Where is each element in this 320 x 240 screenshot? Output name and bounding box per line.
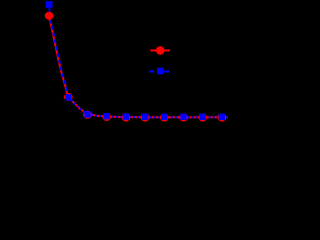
legend red sample line <box>150 50 170 52</box>
red circle marker point 7 <box>160 114 169 122</box>
blue square marker point 3 <box>84 111 90 117</box>
blue series dashed line flat part <box>71 100 228 117</box>
legend blue sample dash left <box>149 71 155 73</box>
red circle marker point 9 <box>198 114 207 122</box>
blue series first dash below square point 1 <box>48 8 50 11</box>
legend blue sample dash right <box>164 71 170 73</box>
legend blue square marker <box>157 68 164 75</box>
red series solid line <box>49 16 228 118</box>
blue square marker point 6 <box>142 114 148 120</box>
blue square marker point 1 <box>46 1 53 8</box>
legend red circle marker <box>156 46 165 55</box>
blue square marker point 7 <box>161 114 167 120</box>
blue square marker point 10 <box>219 114 225 120</box>
red circle marker point 1 <box>45 12 54 20</box>
blue square marker point 5 <box>123 113 129 119</box>
red circle marker point 10 <box>218 114 227 122</box>
red circle marker point 6 <box>141 114 150 122</box>
blue square marker point 8 <box>180 114 186 120</box>
red circle marker point 2 <box>64 93 73 101</box>
blue square marker point 2 <box>65 94 71 100</box>
chart plot area <box>0 0 229 160</box>
blue square marker point 9 <box>199 114 205 120</box>
red circle marker point 5 <box>122 113 131 121</box>
red circle marker point 4 <box>102 113 111 121</box>
blue series dashed line steep part <box>51 25 71 100</box>
red circle marker point 8 <box>179 114 188 122</box>
red circle marker point 3 <box>83 111 92 119</box>
blue square marker point 4 <box>103 113 109 119</box>
blue series dash below first red circle <box>49 21 51 24</box>
